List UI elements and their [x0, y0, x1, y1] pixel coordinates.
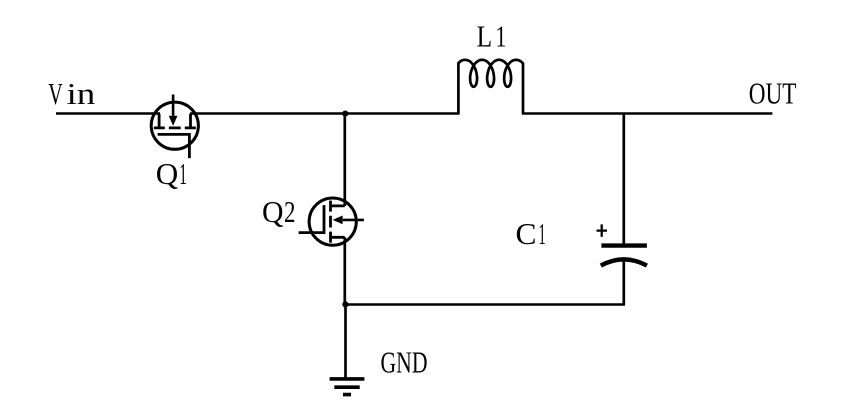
wire switch node to L1: [346, 112, 460, 115]
wire bottom rail ground node to C1: [346, 303, 626, 306]
svg-text:GND: GND: [381, 344, 428, 379]
capacitor C1 polarity plus sign: [597, 224, 608, 237]
svg-text:in: in: [67, 76, 96, 111]
wire Q1 drain to switch node: [190, 112, 346, 115]
svg-text:1: 1: [539, 216, 546, 251]
wire Q2 source down to ground node: [343, 237, 346, 304]
svg-text:2: 2: [284, 194, 296, 229]
wire ground node to ground symbol: [344, 305, 347, 378]
transistor Q1 (MOSFET, horizontal): [151, 95, 198, 159]
wire output node down to C1 positive plate: [622, 114, 625, 245]
capacitor C1 top plate: [601, 243, 647, 247]
svg-text:V: V: [48, 76, 63, 111]
transistor Q2 (N-MOSFET, vertical): [299, 198, 364, 245]
svg-text:C: C: [516, 216, 537, 251]
wire switch node down to Q2 drain: [343, 114, 346, 207]
ground symbol: [330, 379, 365, 395]
svg-text:Q: Q: [262, 194, 284, 229]
svg-text:1: 1: [496, 19, 507, 54]
wire Vin input to Q1 source: [56, 112, 160, 115]
capacitor C1 bottom curved plate: [601, 259, 647, 265]
inductor L1 coil: [458, 60, 523, 114]
svg-text:Q: Q: [156, 156, 179, 191]
ground node junction dot: [342, 301, 348, 307]
wire L1 to OUT: [522, 112, 772, 115]
svg-text:L: L: [477, 19, 493, 54]
wire C1 negative plate to bottom rail: [622, 261, 625, 305]
node SW junction dot: [342, 111, 348, 117]
svg-text:1: 1: [179, 156, 187, 191]
svg-text:OUT: OUT: [749, 76, 797, 111]
